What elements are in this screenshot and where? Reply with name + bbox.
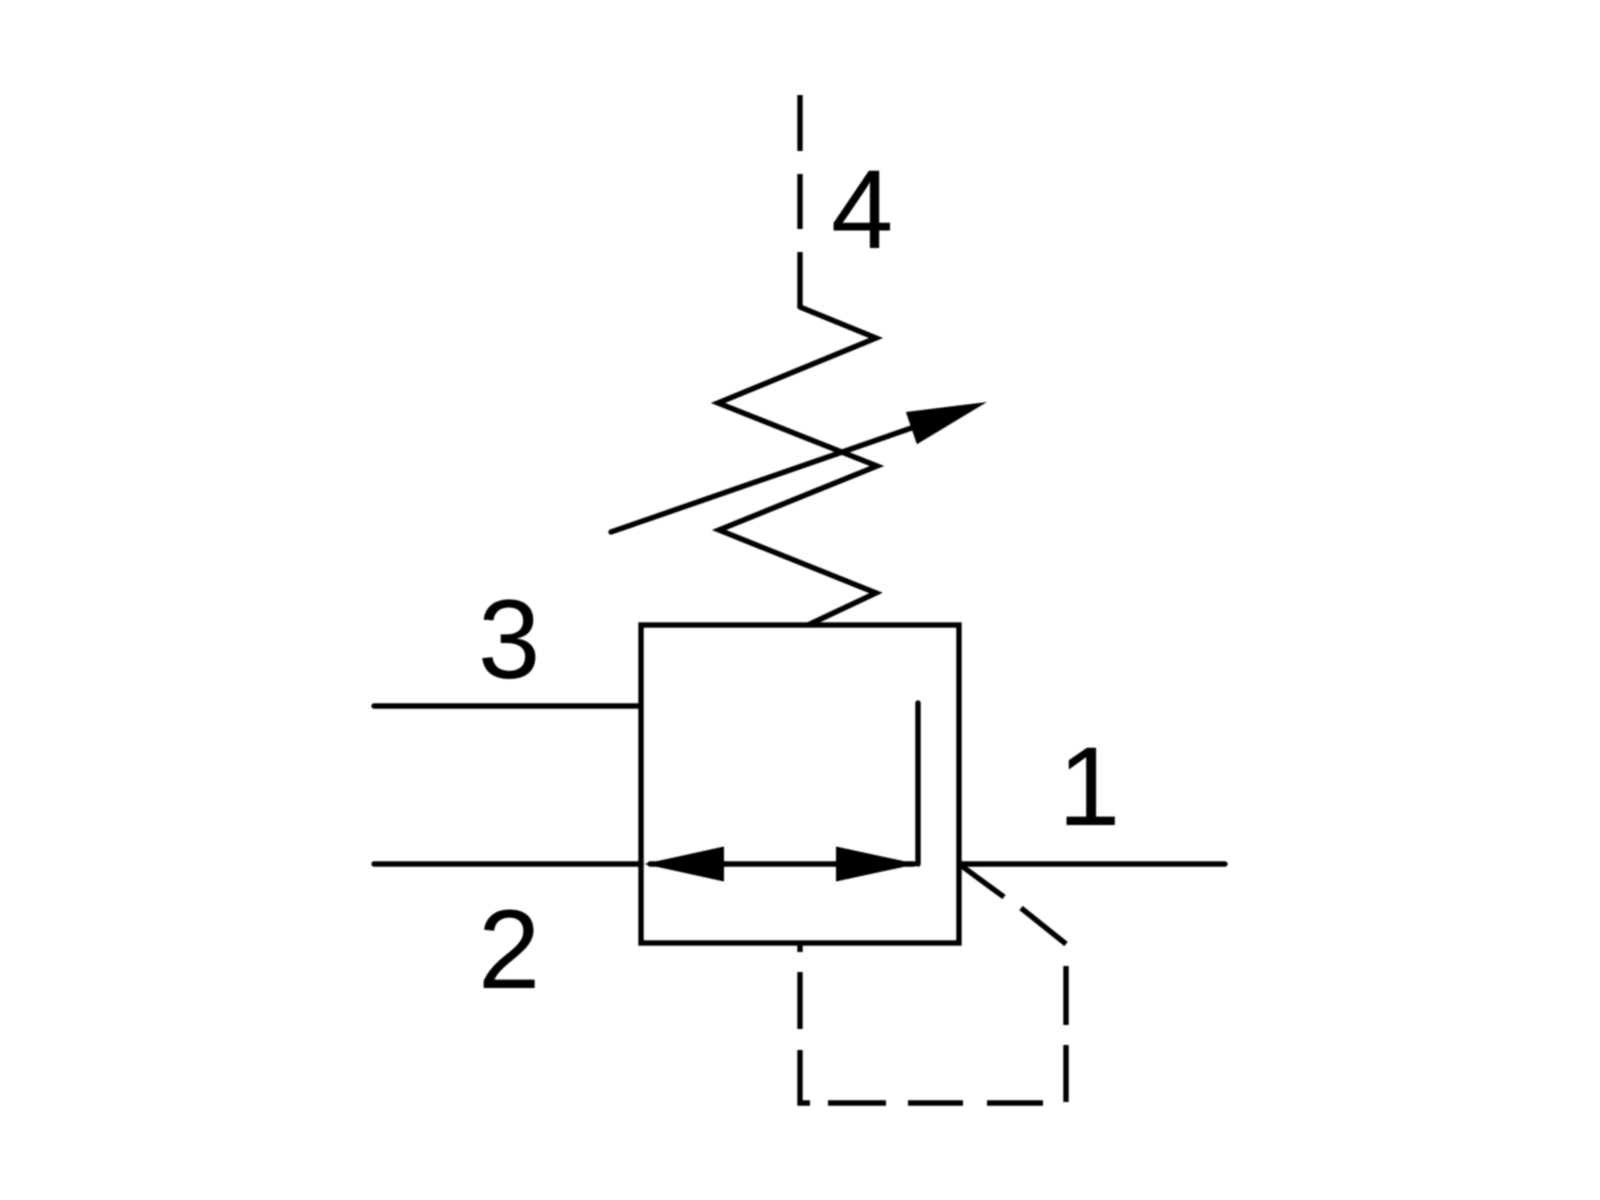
svg-text:4: 4 [831,147,893,272]
svg-text:3: 3 [478,577,540,702]
svg-text:2: 2 [478,887,540,1012]
svg-text:1: 1 [1058,724,1120,849]
